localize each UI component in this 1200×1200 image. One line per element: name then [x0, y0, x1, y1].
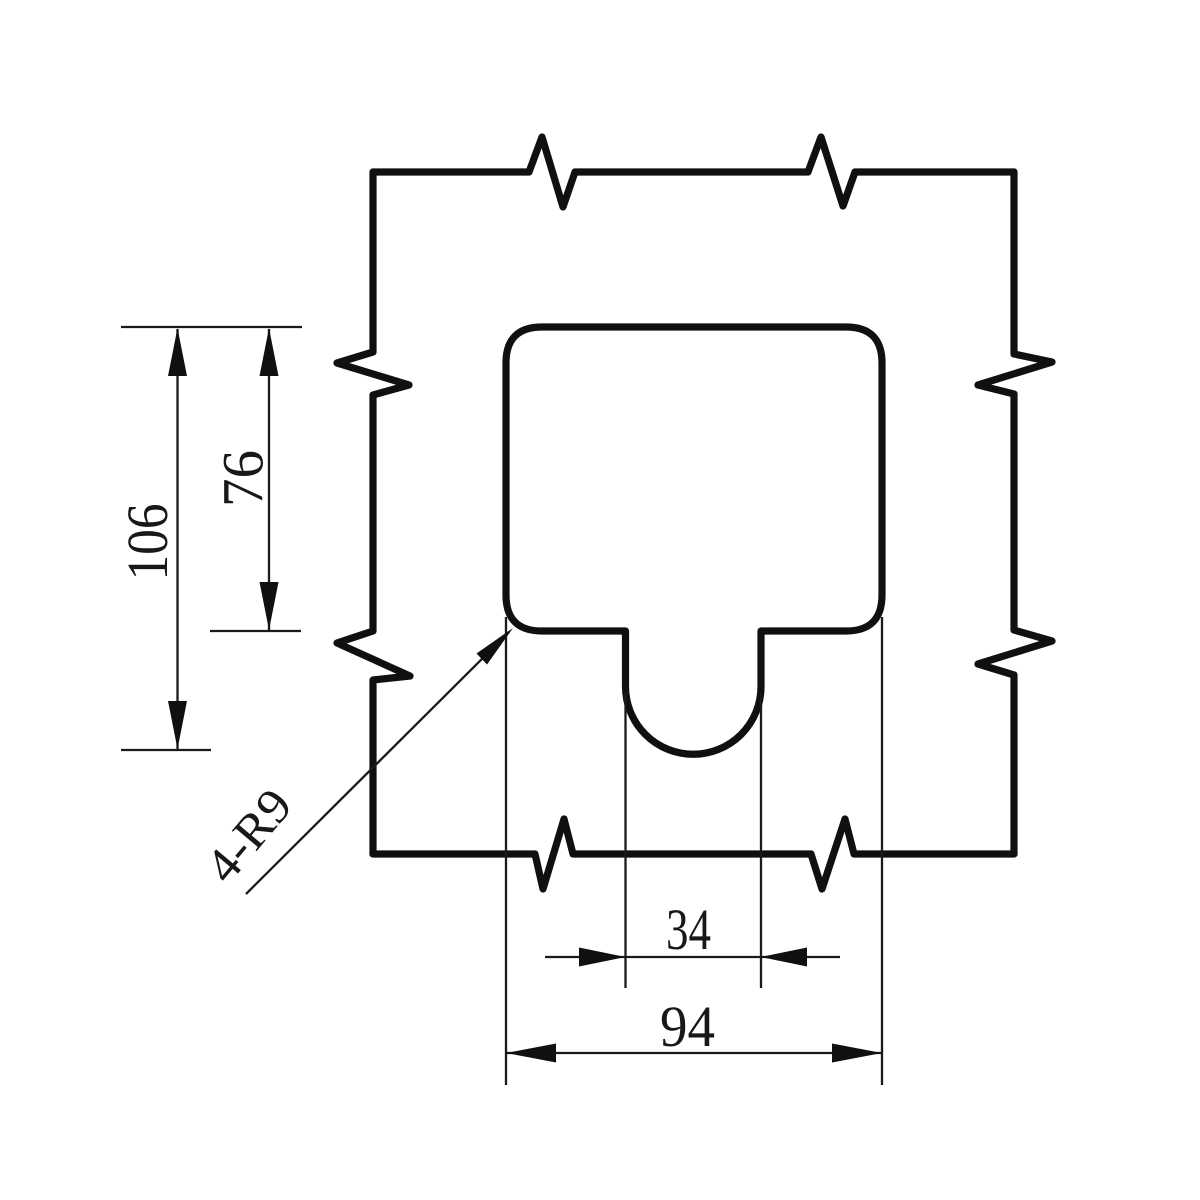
extension line x=625.5 — [624, 693, 626, 988]
svg-text:106: 106 — [115, 504, 180, 581]
dimension line 94 — [506, 1052, 882, 1054]
dimension line 76 — [268, 329, 270, 630]
svg-text:94: 94 — [660, 994, 715, 1059]
arrowhead 94 left — [506, 1044, 556, 1063]
panel outline bottom edge with break symbols — [373, 819, 1014, 889]
arrowhead 76 bottom — [260, 582, 279, 630]
extension line x=506 — [505, 617, 507, 1085]
panel outline top edge with break symbols — [373, 137, 1014, 207]
arrowhead 34 right — [761, 948, 807, 967]
panel outline right edge with break symbols — [978, 172, 1052, 854]
extension tick bottom (y=750) — [121, 749, 211, 751]
cutout: rounded square with U-notch — [506, 327, 882, 754]
extension line x=761 — [760, 693, 762, 988]
panel outline left edge with break symbols — [337, 172, 410, 854]
extension tick top (y=327) — [121, 326, 302, 328]
arrowhead 94 right — [832, 1044, 882, 1063]
dimension line 34 — [545, 956, 840, 958]
arrowhead leader 4-R9 — [477, 628, 514, 665]
arrowhead 106 bottom — [168, 701, 187, 749]
leader line 4-R9 — [246, 632, 509, 894]
extension line x=882 — [881, 617, 883, 1085]
svg-text:34: 34 — [666, 897, 711, 962]
arrowhead 106 top — [168, 328, 187, 376]
arrowhead 76 top — [260, 328, 279, 376]
dimension line 106 — [176, 329, 178, 749]
svg-text:4-R9: 4-R9 — [194, 778, 303, 893]
extension tick middle (y=631) — [210, 630, 301, 632]
arrowhead 34 left — [579, 948, 626, 967]
svg-text:76: 76 — [211, 450, 276, 507]
